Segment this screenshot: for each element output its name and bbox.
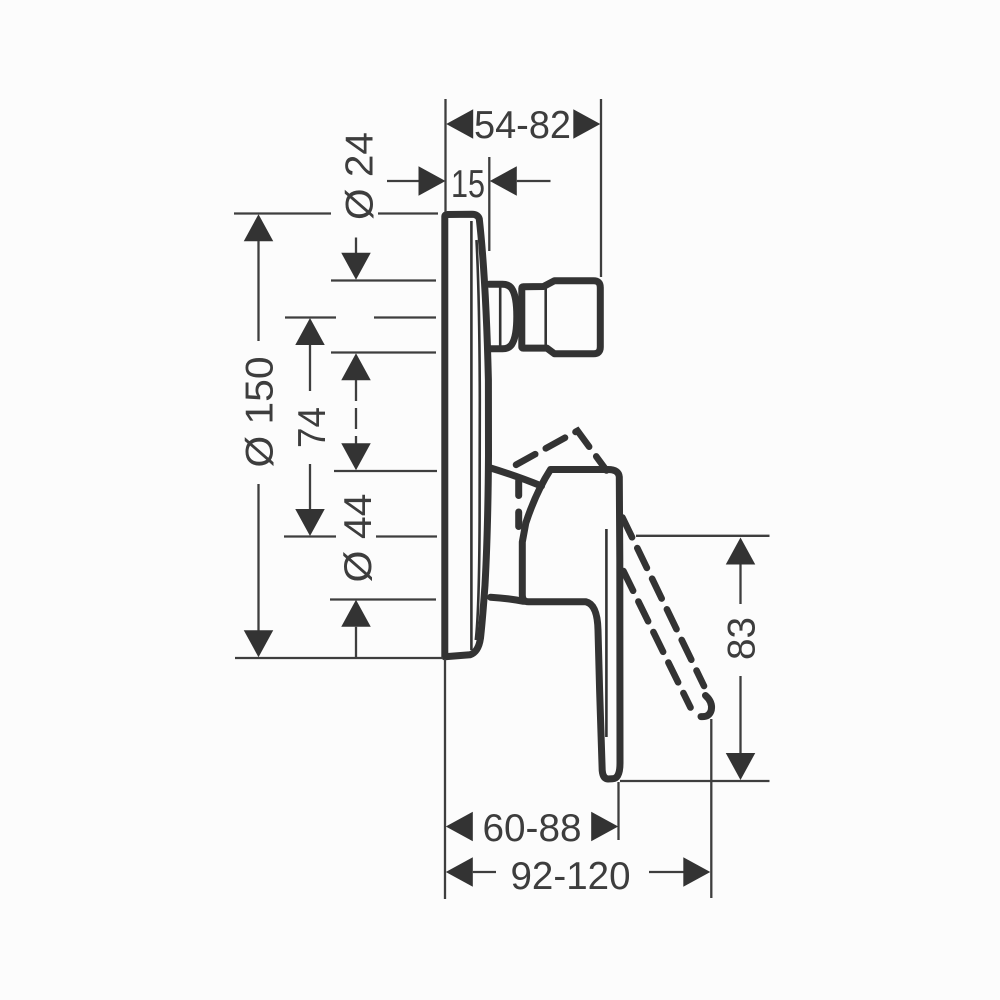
dashed handle lever left edge bbox=[623, 571, 690, 708]
escutcheon plate outline bbox=[445, 214, 489, 657]
handle boss bottom arc bbox=[491, 597, 524, 601]
svg-text:92-120: 92-120 bbox=[511, 855, 631, 898]
plate rim contour line bbox=[476, 240, 480, 640]
D24 level lines bbox=[331, 279, 436, 281]
nut inner line bbox=[544, 289, 547, 347]
svg-text:15: 15 bbox=[451, 163, 485, 206]
dimension 60-88 bbox=[445, 659, 619, 899]
spout flange dome bbox=[489, 284, 517, 349]
svg-text:74: 74 bbox=[291, 407, 334, 448]
svg-text:54-82: 54-82 bbox=[474, 104, 571, 147]
svg-text:Ø 44: Ø 44 bbox=[337, 494, 380, 583]
svg-text:83: 83 bbox=[721, 617, 764, 660]
flange inner line bbox=[499, 287, 502, 347]
dimension 54-82 bbox=[446, 99, 602, 277]
svg-text:60-88: 60-88 bbox=[483, 807, 582, 850]
dashed handle raised position: left vertical dashes bbox=[515, 481, 522, 496]
dimension D24 leader and arrows bbox=[331, 132, 437, 471]
svg-text:Ø 24: Ø 24 bbox=[338, 132, 381, 220]
dashed handle raised position: top edge bbox=[516, 431, 607, 471]
dimension 74 bbox=[284, 318, 437, 537]
hose connector nut bbox=[522, 281, 601, 354]
dimension 15 bbox=[387, 157, 551, 251]
handle lever outline bbox=[522, 470, 620, 780]
dimension D150 bbox=[234, 214, 443, 659]
plate inner face line bbox=[470, 221, 473, 650]
dimension 83 bbox=[620, 536, 770, 781]
dimension D44 bbox=[330, 494, 436, 658]
dimension 92-120 bbox=[446, 719, 712, 898]
dashed handle tip arc bbox=[701, 696, 712, 717]
lever inner face line bbox=[605, 529, 608, 737]
dashed handle lever right edge bbox=[623, 518, 705, 687]
handle boss top arc bbox=[489, 468, 542, 487]
svg-text:Ø 150: Ø 150 bbox=[239, 357, 282, 468]
